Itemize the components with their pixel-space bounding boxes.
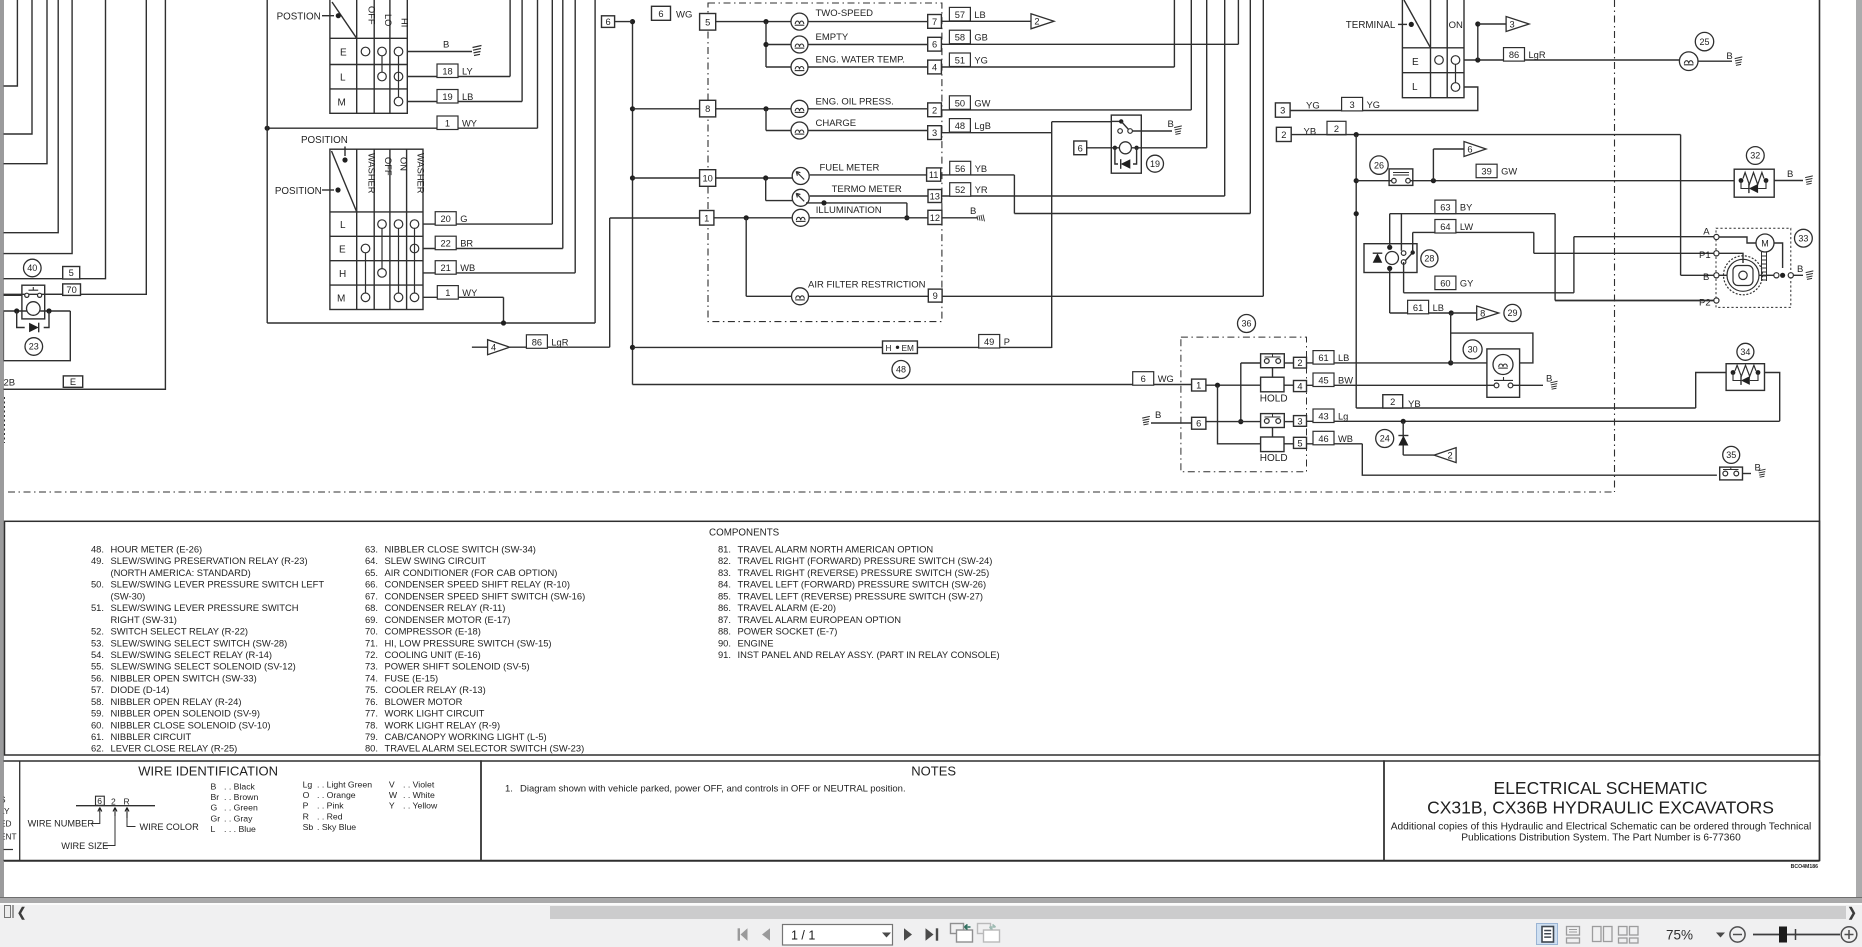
node 28 (1421, 250, 1438, 267)
wire YB riser to motor B port (1680, 135, 1682, 276)
connector box 2 hold (1294, 357, 1307, 368)
arrow 2 left (1403, 454, 1434, 456)
zoom in button (1841, 927, 1857, 943)
connector box 6 relay19 (1074, 141, 1087, 155)
wire M row 19 LB (407, 101, 522, 103)
wire outer loop (3, 311, 70, 361)
hold2 coil (1261, 437, 1284, 452)
wire 39 GW (1356, 180, 1391, 182)
wire ignition E to lamp 25 (1464, 59, 1680, 61)
layout icon continuous (1567, 927, 1580, 944)
wire E row to ground B (407, 51, 472, 53)
label 49 P (979, 335, 1000, 349)
connector box 3 YG left (1275, 103, 1290, 117)
rack bar (1762, 252, 1767, 281)
wire 61 LB hold to lamp 30 (1334, 362, 1451, 364)
connector box 2 right (928, 103, 942, 117)
wire staircase bus left (0, 0, 165, 389)
wire M row 1 WY (423, 296, 504, 298)
table 39 contacts (378, 220, 387, 229)
lamp eng water temp (766, 66, 791, 68)
ignition switch table (1402, 0, 1464, 98)
wire 57 LB to arrow 2 (941, 20, 1031, 22)
page number box (783, 925, 893, 946)
wire L row 20 G (423, 223, 552, 225)
wire coil row with junctions (0, 310, 27, 312)
motor M (1756, 234, 1774, 252)
meter fuel (716, 177, 792, 179)
hold2 contact (1261, 414, 1285, 428)
lamp 25 (1679, 52, 1698, 71)
wire 2B E (0, 388, 165, 390)
lamp two-speed (791, 13, 808, 30)
wire 43 Lg label (1307, 420, 1780, 422)
hold1 coil (1261, 377, 1284, 392)
wire bus bottom to riser (267, 322, 595, 324)
breaker 26 (1370, 156, 1388, 174)
connector box 4 hold (1294, 381, 1307, 392)
wire 2 YB lower (1356, 407, 1696, 409)
module 34 (1737, 343, 1754, 360)
horizontal scrollbar (0, 905, 1862, 920)
wire E row 22 BR (423, 248, 563, 250)
notes box (481, 761, 1384, 861)
wire 46 WB to switch 35 (1362, 444, 1717, 475)
wire 32 to ground (1774, 180, 1803, 182)
connector box 12 (928, 210, 942, 224)
connector box 7 (928, 15, 942, 29)
connector box 6 right (928, 37, 942, 51)
relay unit 36 dashed box (1181, 337, 1307, 472)
wire 51 YG (941, 66, 1174, 68)
wire 48 riser down to 49 P (1051, 122, 1053, 348)
node 48 (892, 361, 910, 379)
node 40 (24, 259, 42, 277)
connector box 2 YB left (1276, 127, 1291, 141)
layout icon single page (selected) (1537, 924, 1558, 945)
relay 19 coil (1119, 142, 1131, 154)
assembly boundary dash-dot (8, 491, 1615, 493)
wire bus 6 column (632, 22, 634, 385)
wire hold1 contact feed (1240, 363, 1242, 422)
wire 6 WG to hold (633, 384, 1192, 386)
layout icon two pages (1593, 927, 1613, 942)
wire L row 18 LY (407, 76, 510, 78)
wire 2 YB main (1291, 134, 1680, 136)
wire H row 21 WB (423, 272, 575, 274)
components box (5, 521, 1820, 755)
wire relay28 feed (1389, 214, 1391, 248)
wire to arrow 3 (1477, 24, 1479, 60)
wire 50 GW (941, 109, 1191, 111)
connector box 5 gauges (700, 14, 716, 31)
wire 12 B ground (942, 217, 977, 219)
connector box 70 (63, 284, 81, 296)
drawing border right (1819, 0, 1821, 861)
connector box 1 gauges (700, 211, 714, 226)
wire 61 LB hold label (1307, 362, 1335, 364)
title block (1384, 761, 1820, 861)
instrument panel dashed box (708, 3, 942, 322)
wire 64 LW (1412, 232, 1414, 252)
diode resistor module 32 (1746, 147, 1764, 165)
node 23 (25, 338, 43, 356)
wire 48 LgB (941, 132, 1051, 134)
wire 1 WY upper (268, 127, 537, 129)
lamp empty (766, 44, 791, 46)
lamp 30 loop (1451, 333, 1533, 363)
wire 58 GB (941, 43, 1238, 45)
viewport bottom edge band (0, 897, 1862, 904)
wire 34 left riser (1696, 373, 1726, 409)
lamp charge (766, 130, 791, 132)
node 19 (1147, 155, 1164, 172)
connector box 9 (928, 289, 942, 302)
relay 19 (1111, 115, 1141, 173)
connector box 13 (928, 190, 942, 203)
wire hold2 coil feed (1218, 385, 1261, 444)
wire hour meter net H EM (633, 346, 883, 348)
hold1 contact (1261, 354, 1285, 368)
connector box 5 (63, 267, 80, 280)
wire two-speed feed (716, 21, 791, 23)
page nav first-page button (741, 928, 748, 940)
lamp eng oil press (716, 108, 791, 110)
wire P1 into pump (1719, 253, 1743, 263)
wire B port through pump (1719, 274, 1727, 276)
connector box 10 (700, 170, 716, 187)
switch 35 (1723, 446, 1740, 463)
boundary fragment left edge (4, 397, 6, 443)
wire 63 BY (1390, 213, 1555, 215)
switch table 39 (330, 149, 423, 309)
wire 56 YB (941, 174, 1015, 176)
svg-text:1 / 1: 1 / 1 (791, 929, 815, 943)
wire relay19 out (1131, 147, 1206, 149)
wire 45 BW label (1307, 384, 1337, 386)
wire termo to illumination link (806, 202, 907, 204)
bus vertical right (1355, 135, 1357, 408)
relay K23 switch and coil (22, 285, 45, 319)
page nav last button (926, 928, 934, 940)
ignition contacts (1435, 56, 1444, 65)
arrow 8 node 29 (1451, 312, 1476, 314)
connector box 5 hold (1294, 437, 1307, 448)
switch 39 lever (332, 151, 357, 212)
diode D19 (1115, 148, 1137, 164)
connector box 3 hold (1294, 416, 1307, 427)
wire number example (76, 805, 155, 807)
svg-text:75%: 75% (1666, 928, 1693, 943)
wire riser to lamp box 1 (609, 218, 611, 347)
travel motor 33 dashed box (1716, 228, 1791, 307)
wire A to motor (1719, 237, 1756, 243)
wire P2 long (1555, 300, 1714, 302)
connector box 6 hold (1192, 417, 1206, 429)
connector box 11 (927, 168, 941, 181)
page nav prev button (762, 928, 770, 940)
wire 60 GY (1403, 262, 1405, 293)
relay 28 (1364, 244, 1417, 273)
wire bus table38 left (266, 0, 268, 323)
wire 46 WB label (1307, 443, 1363, 445)
wire hold feed (1206, 384, 1261, 386)
layout icon two pages continuous (1619, 927, 1639, 944)
diode 24 branch (1376, 430, 1394, 448)
wire 45 BW to switch 30 (1336, 384, 1494, 386)
diode D23 loop (17, 311, 49, 328)
zoom slider (1753, 934, 1840, 936)
meter termo (766, 200, 793, 202)
zoom out button (1730, 927, 1745, 942)
connector box 1 hold (1192, 379, 1206, 391)
connector box 6 top (602, 16, 615, 28)
switch table 38 (330, 0, 407, 113)
connector box 4 (928, 60, 942, 74)
page nav next button (904, 928, 912, 940)
lamp air filter restriction (745, 218, 747, 296)
bottom toolbar (0, 920, 1862, 947)
node 33 (1795, 229, 1813, 247)
wire ignition L to 3 YG (1290, 87, 1478, 111)
wire A port (1574, 236, 1717, 238)
connector box 3 right (928, 126, 942, 140)
wire 9 to riser (942, 295, 1263, 297)
next view icon (disabled) (978, 924, 1000, 943)
wire relay19 B ground (1132, 130, 1172, 132)
switch 38 lever (332, 2, 357, 38)
wire 52 YR (942, 195, 1225, 197)
connector arrow 4 with 86 LgR (488, 340, 510, 355)
drawing border bottom (4, 860, 1820, 862)
wire relay row (0, 294, 22, 296)
wire identification box (0, 761, 481, 861)
wire 34 right riser (1765, 373, 1780, 422)
ignition lever (1404, 0, 1431, 48)
pump circle with gear ring (1724, 256, 1763, 295)
connector box 8 (700, 100, 716, 117)
switch in 30 (1494, 383, 1499, 388)
table 38 contacts (361, 47, 370, 56)
connector box E (63, 376, 82, 387)
lamp unit 30 (1463, 340, 1482, 359)
wire motor down (1774, 243, 1783, 268)
label 6 WG top (652, 6, 671, 20)
branch vertical (765, 22, 767, 67)
lamp illumination (714, 217, 792, 219)
wire to arrow 6 (1432, 149, 1434, 181)
previous view icon (951, 924, 973, 943)
wire 61 LB relay28 (1389, 268, 1391, 313)
